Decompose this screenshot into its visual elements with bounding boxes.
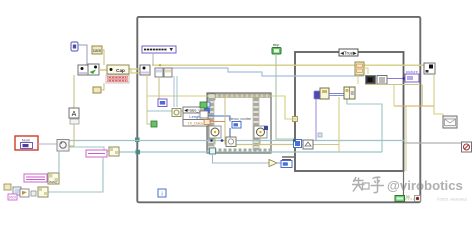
bottom cluster icon b bbox=[13, 187, 21, 195]
conditional terminal bbox=[415, 196, 421, 202]
IMAQdx grab icon bbox=[140, 65, 150, 75]
small node pair after grab bbox=[155, 68, 172, 77]
IMAQ checker icon 1 bbox=[109, 147, 119, 156]
ms constant bbox=[93, 83, 104, 93]
pink label sensor bbox=[86, 150, 107, 157]
wait ms metronome green bbox=[395, 196, 405, 202]
IMAQ checker icon 2 bbox=[48, 173, 59, 184]
wire purple to picture bbox=[387, 77, 405, 80]
acquisition enum label bbox=[142, 46, 176, 53]
bottom cluster icon c bbox=[20, 189, 29, 197]
case bottom vertical line bbox=[404, 106, 407, 195]
gauge icon 2 bbox=[254, 126, 268, 145]
small blue constant bbox=[158, 99, 167, 107]
wire teal lower bbox=[118, 97, 382, 154]
tunnel for loop left blue b bbox=[204, 108, 210, 113]
svg-text:IMAQ: IMAQ bbox=[49, 180, 57, 184]
envelope icon bbox=[443, 116, 457, 128]
case lower icon pair bbox=[318, 133, 322, 137]
black screen icon bbox=[366, 76, 376, 85]
watermark zhihu bbox=[352, 177, 463, 193]
sensor number label bbox=[229, 117, 253, 128]
svg-text:ROI: ROI bbox=[9, 196, 15, 200]
wire yellow vertical x154 bbox=[147, 64, 285, 124]
icon next to cube bbox=[320, 88, 344, 99]
gauge icon 1 bbox=[209, 126, 221, 145]
tiny copyright bbox=[437, 197, 467, 202]
stop icon right bbox=[462, 142, 472, 152]
red highlight box with Num control bbox=[15, 136, 38, 150]
wire dashed to conditional bbox=[405, 195, 414, 199]
svg-text:stop: stop bbox=[273, 43, 280, 47]
property node Cap bbox=[107, 65, 129, 74]
green tiny icon left bbox=[151, 121, 157, 127]
tunnel left teal bbox=[135, 138, 140, 143]
purple cube icon bbox=[314, 91, 321, 99]
wire teal vertical x177 bbox=[176, 76, 178, 107]
for loop frame bbox=[207, 93, 271, 153]
wire session gray bbox=[78, 45, 87, 65]
small icon below green2 bbox=[200, 111, 208, 118]
wire yellow vertical case bbox=[338, 97, 340, 152]
bottom cluster tiny box bbox=[31, 191, 36, 196]
wire teal down x103 bbox=[48, 157, 103, 192]
cam name constant bbox=[92, 46, 102, 54]
case selector tunnel bbox=[293, 139, 313, 149]
svg-text:A: A bbox=[72, 111, 77, 118]
pink ROI label bbox=[8, 194, 17, 200]
array index icon in loop bbox=[226, 137, 236, 147]
tunnel for loop left blue a bbox=[204, 102, 210, 107]
case selector label True bbox=[339, 49, 358, 56]
font A node bbox=[69, 108, 79, 124]
svg-text:cam: cam bbox=[93, 48, 102, 53]
tunnel for loop left orange bbox=[204, 120, 210, 125]
wire TF down green bbox=[276, 54, 294, 139]
svg-text:©2021 virobotics: ©2021 virobotics bbox=[437, 197, 467, 202]
svg-text:picture: picture bbox=[406, 69, 419, 74]
IMAQ checker icon 3 bbox=[38, 187, 48, 197]
list icon next bbox=[377, 76, 387, 85]
wire olive middle bbox=[230, 144, 339, 146]
picture indicator bbox=[405, 69, 419, 82]
svg-text:Num: Num bbox=[22, 138, 31, 143]
wire teal long middle bbox=[69, 140, 404, 142]
wire yellow close down bbox=[366, 74, 443, 117]
svg-text:Cap: Cap bbox=[116, 68, 125, 73]
tunnel case yellow bbox=[293, 117, 298, 122]
svg-text:Sensor_number: Sensor_number bbox=[229, 117, 253, 121]
wire error yellow main top bbox=[152, 64, 424, 66]
loop iteration terminal bbox=[158, 189, 166, 198]
wire yellow loop out right bbox=[268, 96, 296, 119]
wire purple vertical bbox=[315, 99, 317, 140]
property node circle bbox=[57, 140, 69, 152]
while loop frame bbox=[137, 17, 420, 202]
wire gray right middle bbox=[404, 142, 461, 144]
IMAQdx open camera icon bbox=[78, 65, 88, 75]
wire blue vertical x174 bbox=[173, 76, 175, 107]
unbundle by name node bbox=[183, 107, 208, 126]
wait clock icon bbox=[172, 109, 181, 117]
case attr node tan bbox=[355, 62, 368, 75]
green tiny icon 2 bbox=[200, 102, 207, 108]
multiply triangle bbox=[213, 154, 282, 167]
wire orange ixdata bbox=[208, 121, 225, 123]
second pair icon bbox=[344, 75, 358, 99]
svg-text:IX_Data: IX_Data bbox=[188, 121, 203, 126]
svg-text:◀True▶: ◀True▶ bbox=[340, 50, 357, 55]
wire tan down to font node bbox=[69, 75, 74, 146]
wire blue upper bbox=[172, 68, 364, 76]
IMAQdx close icon bbox=[424, 63, 435, 74]
wire teal down left bbox=[59, 147, 109, 176]
wire cam tan bbox=[102, 50, 104, 65]
wire yellow to cap node bbox=[99, 69, 141, 70]
pink label 2 bbox=[24, 174, 47, 182]
session control terminal bbox=[71, 42, 78, 51]
wire blue length bbox=[208, 96, 230, 145]
IMAQdx configure grab icon bbox=[88, 64, 99, 75]
case structure frame bbox=[295, 52, 404, 171]
svg-text:i: i bbox=[161, 192, 162, 198]
svg-text:@virobotics: @virobotics bbox=[387, 178, 463, 193]
width label and indicator bbox=[281, 157, 294, 168]
bottom cluster icon a bbox=[4, 184, 11, 190]
wire enum down bbox=[152, 53, 154, 65]
svg-text:50: 50 bbox=[406, 195, 410, 199]
wire num to node bbox=[38, 143, 57, 145]
boolean TF terminal bbox=[272, 43, 281, 54]
wire yellow elbow into loop bbox=[129, 69, 140, 73]
attribute list red text bbox=[106, 75, 129, 83]
